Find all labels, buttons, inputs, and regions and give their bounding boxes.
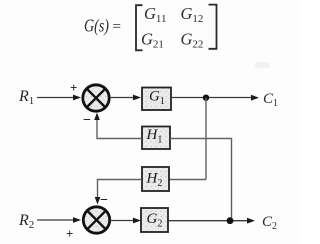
svg-text:G21: G21 <box>141 30 164 51</box>
wire H2 output to summer 2 minus input <box>98 180 143 200</box>
wire C2 node up to H1 (right segment) <box>170 139 232 222</box>
svg-text:G22: G22 <box>181 30 204 51</box>
svg-text:−: − <box>100 193 108 208</box>
block H1 <box>142 127 170 150</box>
summing junction S1 <box>83 85 109 111</box>
wire R1 to summer 1 <box>37 97 75 99</box>
matrix left bracket <box>136 5 143 50</box>
svg-text:=: = <box>113 19 121 35</box>
wire G1 to C1 <box>171 97 253 99</box>
wire H2 row from vertical to H2 box <box>169 179 206 181</box>
block G2 <box>141 208 168 232</box>
wire H1 output to summer 1 minus input <box>97 116 142 139</box>
block H2 <box>142 167 169 191</box>
summing junction S2 <box>83 207 109 233</box>
block G1 <box>142 88 171 111</box>
svg-text:G(s): G(s) <box>84 16 109 37</box>
svg-text:R2: R2 <box>18 212 34 231</box>
wire G2 to C2 <box>168 220 249 222</box>
svg-text:+: + <box>66 226 73 241</box>
svg-text:C2: C2 <box>262 214 277 232</box>
svg-text:G12: G12 <box>181 4 204 25</box>
node junction on C2 line <box>227 217 234 224</box>
node junction on C1 line <box>203 95 209 101</box>
wire summer 1 to G1 <box>110 97 135 99</box>
svg-text:G11: G11 <box>144 4 167 25</box>
wire C1 node down to H2 row <box>205 98 207 180</box>
svg-text:+: + <box>70 80 77 95</box>
matrix right bracket <box>209 5 217 49</box>
svg-text:C1: C1 <box>263 91 278 109</box>
svg-text:−: − <box>83 113 91 128</box>
faint scan smudge <box>254 62 270 69</box>
wire summer 2 to G2 <box>110 220 135 222</box>
svg-text:R1: R1 <box>18 88 34 107</box>
wire R2 to summer 2 <box>37 219 75 221</box>
